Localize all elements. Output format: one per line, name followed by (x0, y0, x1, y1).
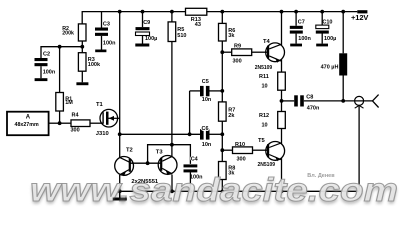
svg-text:R11: R11 (259, 74, 269, 80)
ground below C2 (35, 78, 48, 81)
resistor R7 (219, 102, 236, 121)
junction (281.5,100.9) (280, 99, 284, 103)
box A input module (7, 112, 49, 136)
wire C3 bottom lead (101, 36, 103, 50)
svg-text:T2: T2 (126, 148, 133, 154)
wire T3 collector lead (171, 145, 173, 158)
ground main rail redraw (113, 191, 127, 200)
ground below C7 (290, 44, 302, 47)
wire node A line T1 source to C6 (120, 133, 200, 135)
wire R2 bottom to R3 top (81, 41, 83, 53)
junction (222.3,11.6) (220, 10, 224, 14)
junction (222.3,90.9) (220, 89, 224, 93)
resistor R6 (219, 23, 236, 41)
junction (222.3,191.3) (221, 190, 224, 193)
wire C10 top lead (321, 12, 323, 26)
svg-text:2N5109: 2N5109 (258, 162, 276, 168)
wire C3 top lead (101, 12, 103, 28)
svg-text:10: 10 (262, 84, 268, 90)
wire C5 right lead (210, 90, 223, 92)
svg-text:R12: R12 (259, 113, 269, 119)
svg-text:T3: T3 (156, 149, 164, 155)
svg-text:300: 300 (237, 156, 246, 162)
svg-text:C9: C9 (143, 20, 150, 26)
junction (172,191.3) (170, 189, 174, 193)
resistor R12 (259, 112, 285, 129)
wire R9 left lead (222, 51, 231, 53)
wire T2 T3 base link (130, 162, 161, 164)
wire R6 bottom to R7 (221, 41, 223, 102)
wire T4 emitter to R11 (281, 59, 283, 72)
wire line B T3 collector net (148, 145, 191, 164)
wire C2/R1/R3 node line (41, 47, 82, 58)
junction (222.3,134.3) (220, 132, 224, 136)
wire ground stub (119, 191, 121, 197)
svg-text:www.sandacite.com: www.sandacite.com (30, 171, 398, 208)
wire T3 emitter down (171, 175, 173, 192)
svg-text:R10: R10 (235, 142, 245, 148)
svg-text:J310: J310 (96, 131, 109, 137)
resistor R9 (232, 43, 252, 64)
wire C9 bottom lead (142, 36, 144, 44)
wire output fork upper (373, 95, 379, 101)
svg-text:300: 300 (71, 127, 80, 133)
junction (119.7,11.6) (118, 10, 122, 14)
junction (119.7,134.3) (118, 132, 122, 136)
wire R3 bottom lead (81, 71, 83, 82)
svg-text:R9: R9 (234, 43, 241, 49)
resistor R5 (168, 22, 186, 42)
wire R5 bottom to T3 collector (171, 42, 173, 145)
wire inductor top lead (342, 12, 344, 54)
resistor R13 (186, 8, 207, 28)
wire connector shield down (358, 106, 360, 191)
svg-text:C2: C2 (43, 52, 50, 58)
wire T1 drain rail down (119, 12, 121, 135)
wire C7 top lead (295, 12, 297, 26)
svg-text:1M: 1M (65, 100, 73, 106)
junction (171.9,144.7) (170, 143, 174, 147)
wire R1 top lead (59, 47, 61, 93)
svg-text:10n: 10n (202, 97, 212, 103)
wire R4 to T1 gate (90, 122, 104, 124)
junction (190.4,191.3) (189, 190, 192, 193)
junction (322.2,11.6) (320, 10, 324, 14)
capacitor C5 (200, 79, 212, 103)
svg-text:510: 510 (177, 33, 186, 39)
junction (222.3,52.2) (220, 50, 224, 54)
watermark www.sandacite.com (30, 171, 398, 211)
ground main rail (113, 198, 127, 201)
capacitor C6 (200, 126, 212, 148)
wire C4 bottom lead (189, 172, 191, 191)
svg-text:10n: 10n (202, 142, 212, 148)
svg-text:R4: R4 (72, 113, 80, 119)
svg-text:100n: 100n (103, 40, 116, 46)
junction (189.6,134.3) (188, 132, 192, 136)
resistor R3 (78, 53, 101, 71)
wire R10 right lead to T5 base (253, 149, 268, 151)
resistor R1 (56, 93, 73, 112)
svg-text:C8: C8 (306, 95, 313, 101)
svg-text:2k: 2k (228, 113, 235, 119)
svg-text:+12V: +12V (351, 13, 368, 22)
svg-text:100µ: 100µ (145, 36, 157, 42)
resistor R4 (71, 113, 91, 134)
capacitor C2 (35, 52, 56, 76)
wire C9 top lead (142, 12, 144, 28)
wire C8 left lead (282, 100, 295, 102)
capacitor C7 (290, 19, 312, 42)
svg-text:A: A (26, 114, 31, 120)
junction (147.6,163.2) (146, 161, 150, 165)
svg-text:470n: 470n (307, 105, 320, 111)
svg-text:100n: 100n (298, 36, 311, 42)
wire top rail +12V (82, 12, 357, 24)
transistor T2 2N5551 (115, 148, 134, 177)
svg-text:C4: C4 (191, 156, 199, 162)
svg-text:T4: T4 (263, 39, 271, 45)
junction (281.5,191.3) (280, 189, 284, 193)
ground below C10 (316, 44, 328, 47)
resistor R8 (219, 162, 236, 180)
junction (119.7,191.3) (118, 189, 122, 193)
junction (281.5,11.6) (280, 10, 284, 14)
wire R10 left lead (222, 149, 232, 151)
wire T5 emitter down (281, 158, 283, 191)
junction (82.3,46.7) (80, 45, 84, 49)
wire R1 bottom lead (59, 111, 61, 123)
+12V supply terminal (351, 10, 368, 22)
wire C6 right lead (210, 133, 223, 135)
wire ground rail bottom (120, 190, 359, 192)
svg-text:43: 43 (195, 22, 201, 28)
svg-text:C7: C7 (298, 19, 305, 25)
wire R9 right lead to T4 base (252, 51, 267, 53)
capacitor C3 (95, 22, 116, 47)
wire inductor bottom lead (342, 76, 344, 101)
resistor R11 (259, 72, 285, 90)
wire T2 emitter down (119, 175, 121, 192)
inductor 470uH (321, 53, 348, 75)
transistor T5 2N5109 (258, 138, 285, 168)
svg-text:100k: 100k (88, 62, 101, 68)
svg-text:T5: T5 (258, 138, 266, 144)
svg-text:200k: 200k (62, 30, 74, 36)
wire C8 right lead to connector (304, 100, 373, 102)
capacitor C10 polarized (316, 19, 337, 42)
resistor R2 (62, 24, 86, 41)
wire C2 bottom lead (40, 66, 42, 78)
junction (296.1,11.6) (294, 10, 298, 14)
wire R5 top lead (171, 12, 173, 22)
junction (142.5,11.6) (141, 10, 145, 14)
transistor T4 2N5109 (255, 39, 285, 71)
junction (59.6,46.7) (58, 45, 62, 49)
junction (343.2,11.6) (341, 10, 345, 14)
svg-text:C5: C5 (202, 79, 209, 85)
ground below C3 (95, 50, 106, 53)
svg-text:T1: T1 (96, 102, 104, 108)
wire C5 left lead (190, 90, 200, 92)
svg-text:10: 10 (262, 123, 268, 129)
svg-text:3k: 3k (228, 33, 235, 39)
wire R12 to T5 collector (281, 129, 283, 144)
svg-text:300: 300 (233, 59, 242, 65)
wire R7 bottom to R8 (221, 121, 223, 161)
svg-text:100n: 100n (43, 70, 56, 76)
wire A box to node (49, 122, 60, 124)
resistor R10 (233, 142, 253, 163)
svg-text:C6: C6 (202, 126, 209, 132)
capacitor C8 (294, 95, 320, 112)
wire C7 bottom lead (295, 34, 297, 44)
svg-text:C10: C10 (322, 19, 332, 25)
wire node to R4 (60, 122, 71, 124)
svg-text:100µ: 100µ (324, 36, 336, 42)
wire C5 left riser (189, 91, 191, 134)
svg-text:48x27mm: 48x27mm (15, 122, 39, 128)
junction (59.6,123.2) (58, 121, 62, 125)
capacitor C9 polarized (136, 20, 158, 42)
wire C10 bottom lead (321, 33, 323, 43)
junction (171.9,11.6) (170, 10, 174, 14)
transistor T1 JFET J310 (96, 102, 120, 137)
svg-text:C3: C3 (103, 22, 110, 28)
transistor T3 2N5551 (156, 149, 177, 175)
junction (222.3,150.2) (220, 148, 224, 152)
svg-text:470 µH: 470 µH (321, 64, 339, 70)
wire output fork lower (373, 101, 379, 108)
ground below C9 (135, 44, 149, 47)
junction (343.2,100.9) (341, 99, 345, 103)
output connector (355, 96, 364, 108)
wire R6 top lead (221, 12, 223, 24)
capacitor C4 (184, 156, 204, 180)
wire R8 bottom lead (221, 180, 223, 192)
svg-text:2N5109: 2N5109 (255, 65, 273, 71)
ground below R3 (76, 82, 88, 85)
wire T4 collector from rail (281, 12, 283, 46)
wire R11 to C8 node (281, 90, 283, 111)
wire T2 collector from node (119, 134, 121, 157)
